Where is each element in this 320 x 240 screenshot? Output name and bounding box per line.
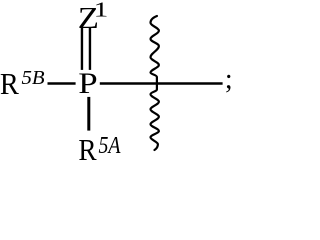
svg-text:P: P	[78, 67, 97, 100]
group label R5A	[78, 131, 120, 167]
svg-text:1: 1	[94, 0, 109, 21]
group label R5B	[0, 67, 45, 101]
bond P-R5A	[87, 97, 90, 131]
svg-text:R: R	[0, 67, 19, 101]
svg-text:R: R	[78, 134, 97, 160]
double bond P=Z1	[82, 27, 90, 70]
wavy attachment bond	[151, 16, 159, 150]
svg-text:5B: 5B	[22, 67, 46, 89]
bond R5B-P	[48, 82, 76, 84]
svg-text:5A: 5A	[99, 131, 121, 158]
atom label Z1	[78, 0, 108, 35]
bond P-attachment (right)	[100, 82, 223, 85]
svg-text:;: ;	[225, 64, 233, 95]
